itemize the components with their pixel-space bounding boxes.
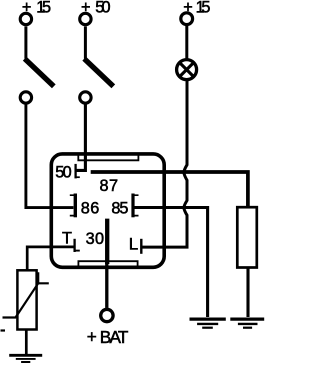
top pocket [78, 155, 138, 160]
svg-text:T: T [62, 229, 72, 247]
svg-text:+: + [87, 327, 97, 347]
terminal circle S2 lower [80, 92, 91, 103]
wire lamp down with junction kinks to pin L [141, 81, 187, 247]
svg-text:BAT: BAT [100, 327, 129, 347]
pin 86 bar [74, 194, 77, 218]
pin 85 bar [131, 194, 134, 218]
thermistor R2 body [17, 270, 36, 329]
terminal circle +15 right [181, 13, 193, 25]
pin 30 bar [105, 219, 109, 264]
svg-text:87: 87 [100, 177, 119, 195]
wire thermistor to ground C [25, 330, 28, 355]
svg-text:50: 50 [55, 164, 71, 182]
wire pin T to thermistor [27, 247, 74, 271]
svg-text:30: 30 [86, 230, 105, 248]
wire R1 to ground B [246, 267, 249, 317]
pin L bar [140, 239, 142, 254]
thermistor R2 diagonal with bottom foot [3, 283, 39, 317]
terminal circle S1 lower [20, 92, 31, 103]
svg-text:L: L [129, 235, 138, 254]
terminal circle +15 left [20, 13, 31, 24]
wire switch S2 top [84, 26, 87, 58]
wire switch S1 top [24, 26, 27, 58]
svg-text:85: 85 [111, 199, 128, 217]
wire to lamp [185, 26, 188, 60]
resistor R1 body [237, 207, 256, 267]
pin 86 ticks [70, 195, 76, 215]
battery terminal circle [101, 309, 113, 321]
wire S2 lower to pin 50 [76, 105, 85, 171]
svg-text:50: 50 [95, 0, 110, 17]
ground A [190, 318, 226, 321]
switch S2 blade [84, 59, 113, 87]
pin 85 ticks [133, 195, 139, 215]
wire pin 85 to junction and ground A [134, 208, 208, 318]
thermistor R2 top foot [38, 272, 49, 283]
switch S1 blade [25, 59, 54, 87]
wire S1 lower to pin 86 [26, 105, 74, 208]
pin 50 tick [76, 176, 80, 178]
lamp E1 [177, 60, 197, 80]
pin 50 bar [74, 164, 76, 179]
bottom pocket [78, 261, 137, 266]
svg-text:86: 86 [81, 199, 100, 217]
contact bar 87 to resistor R1 [91, 172, 248, 207]
ground B [230, 318, 264, 321]
wire 30 to battery [105, 260, 108, 308]
pin T bar [73, 239, 75, 252]
svg-text:15: 15 [36, 0, 51, 17]
ground C [9, 354, 42, 357]
relay box K1 [51, 154, 164, 267]
terminal circle +50 [80, 13, 91, 24]
polarity dash [1, 329, 6, 331]
svg-text:15: 15 [196, 0, 211, 16]
